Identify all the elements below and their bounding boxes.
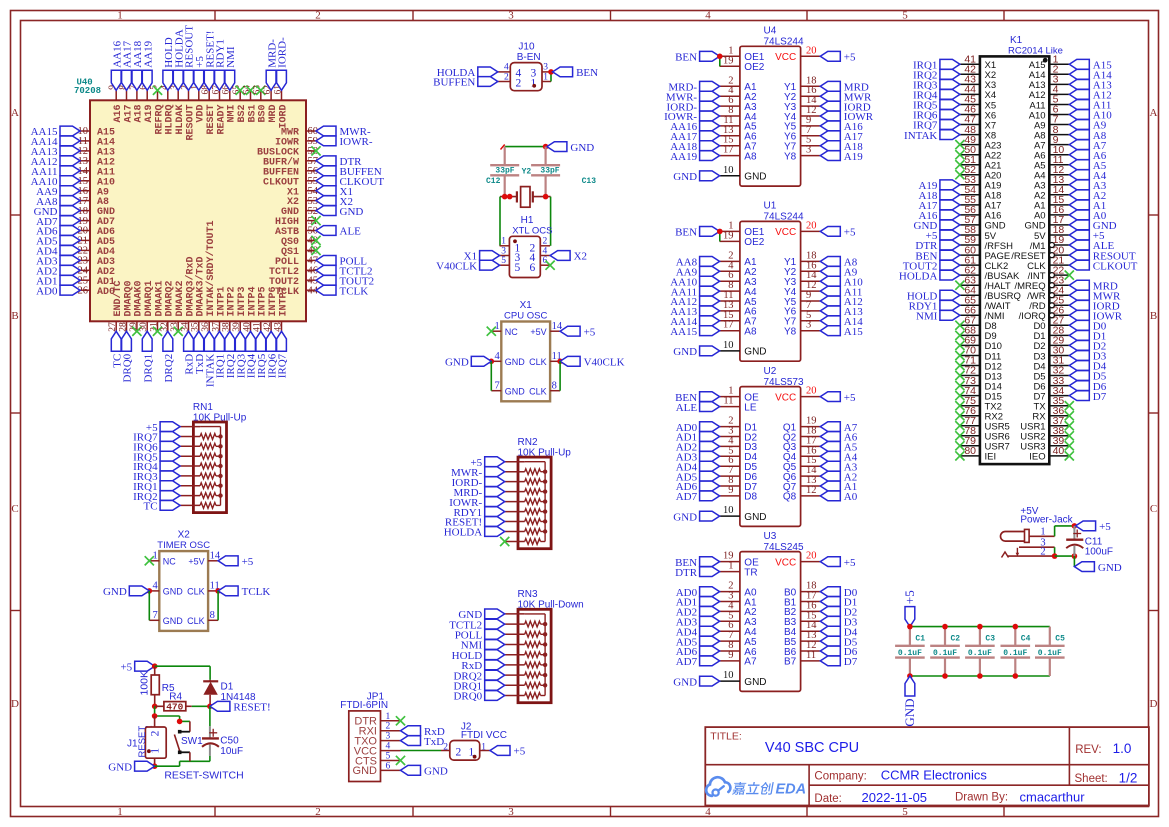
resistor network RN3 10K Pull-Down xyxy=(518,589,584,703)
net flag GND xyxy=(34,206,80,218)
svg-text:GND: GND xyxy=(103,586,127,598)
K1 pin 64 /BUSRQ xyxy=(960,284,1021,302)
U3 pin 8 A6 xyxy=(720,640,757,658)
net flag AA12 xyxy=(670,296,719,308)
K1 pin 69 D10 xyxy=(960,335,1002,353)
U2 pin 18 Q2 xyxy=(783,426,820,444)
svg-text:36: 36 xyxy=(201,322,211,332)
U2 pin 15 Q5 xyxy=(783,455,820,473)
svg-text:+5: +5 xyxy=(514,746,526,758)
svg-text:+5: +5 xyxy=(120,661,132,673)
svg-text:10: 10 xyxy=(723,670,734,681)
U1 pin 3 Y8 xyxy=(784,320,820,338)
wire C50 to ground rail xyxy=(180,756,210,766)
svg-text:9: 9 xyxy=(728,650,733,661)
U40 pin 1 VDD xyxy=(191,85,207,123)
svg-text:4: 4 xyxy=(153,581,159,592)
wire crystal to H1 pin1 xyxy=(499,197,501,246)
no-connect X xyxy=(145,556,154,565)
U40 pin 29 DMAAK0 xyxy=(129,280,145,331)
no-connect X xyxy=(955,150,964,159)
svg-text:10uF: 10uF xyxy=(220,746,243,757)
svg-text:RESET-SWITCH: RESET-SWITCH xyxy=(164,770,243,782)
svg-text:TR: TR xyxy=(744,567,757,578)
U1 pin 19 OE2 xyxy=(720,230,765,248)
U40 pin 34 DMARQ3/RxD xyxy=(180,256,196,331)
svg-text:5: 5 xyxy=(501,256,506,266)
net flag D7 xyxy=(820,656,857,668)
net flag CLKOUT xyxy=(316,176,384,188)
U40 pin 25 AD1 xyxy=(78,275,116,288)
U3 pin 10 GND xyxy=(720,670,767,688)
wire GND pins xyxy=(490,361,492,390)
net flag GND xyxy=(1069,220,1116,232)
svg-text:DRQ0: DRQ0 xyxy=(122,353,134,382)
no-connect X xyxy=(500,537,509,546)
K1 pin 2 A14 xyxy=(1029,64,1070,82)
net flag +5 xyxy=(1069,230,1105,242)
wire crystal top to GND xyxy=(501,145,546,150)
connector J2 FTDI VCC xyxy=(441,721,507,760)
no-connect X xyxy=(955,351,964,360)
net flag DRQ1 xyxy=(453,680,504,692)
capacitor C50 10uF xyxy=(202,726,243,757)
svg-text:GND: GND xyxy=(744,677,766,688)
K1 pin 16 A0 xyxy=(1034,204,1069,222)
J10 pin 3 xyxy=(542,63,551,73)
K1 pin 65 /WAIT xyxy=(960,295,1011,313)
net flag BEN xyxy=(675,227,720,239)
U4 pin 10 GND xyxy=(720,165,767,183)
U4 pin 19 OE2 xyxy=(720,55,765,73)
U40 pin 24 AD2 xyxy=(78,266,116,278)
K1 pin 41 X1 xyxy=(960,54,996,72)
no-connect X xyxy=(174,327,183,336)
K1 pin 46 X6 xyxy=(960,104,996,122)
U40 pin 53 X2 xyxy=(287,196,318,208)
svg-text:2: 2 xyxy=(516,77,522,89)
svg-text:11: 11 xyxy=(723,396,733,407)
net flag IRQ1 xyxy=(215,331,227,378)
svg-text:GND: GND xyxy=(340,206,364,218)
no-connect X xyxy=(955,361,964,370)
net flag A14 xyxy=(820,316,863,328)
K1 pin 35 TX xyxy=(1033,395,1069,413)
net flag IRQ6 xyxy=(913,110,960,122)
U40 pin 56 BUFFEN xyxy=(263,166,318,178)
svg-text:VCC: VCC xyxy=(775,557,796,568)
net flag IOWR xyxy=(1069,310,1122,322)
net flag A10 xyxy=(1069,110,1112,122)
K1 pin 24 /WR xyxy=(1027,284,1069,302)
svg-text:Q8: Q8 xyxy=(783,492,797,503)
RN1 pin 8 xyxy=(180,493,220,499)
net flag GND xyxy=(673,511,719,523)
svg-text:8: 8 xyxy=(210,610,215,621)
U40 pin 63 BS0 xyxy=(253,85,269,123)
svg-text:IRQ7: IRQ7 xyxy=(277,353,289,378)
svg-text:4: 4 xyxy=(705,806,711,818)
svg-text:OE2: OE2 xyxy=(744,237,764,248)
U4 pin 1 OE1 xyxy=(720,45,765,63)
svg-text:TITLE:: TITLE: xyxy=(710,730,742,742)
U3 pin 2 A0 xyxy=(720,581,757,599)
U1 pin 11 A5 xyxy=(720,290,757,308)
svg-text:CLKOUT: CLKOUT xyxy=(1093,260,1138,272)
no-connect X xyxy=(955,331,964,340)
svg-text:EDA: EDA xyxy=(776,782,807,798)
no-connect X xyxy=(396,756,405,765)
wire jack pin1 to +5 xyxy=(1055,526,1075,536)
U40 pin 13 A12 xyxy=(78,156,116,168)
U3 pin 3 A1 xyxy=(720,591,757,609)
svg-text:RN2: RN2 xyxy=(518,437,538,448)
RN2 pin 7 xyxy=(505,519,545,525)
U2 pin 11 LE xyxy=(720,396,757,414)
junction xyxy=(548,69,554,75)
net flag ALE xyxy=(1069,240,1114,252)
no-connect X xyxy=(955,421,964,430)
svg-text:IEI: IEI xyxy=(985,452,997,463)
RN3 pin 9 xyxy=(505,693,545,699)
svg-text:42: 42 xyxy=(263,322,273,332)
wire J1 to switch xyxy=(155,706,190,721)
no-connect X xyxy=(1065,411,1074,420)
capacitor C4 0.1uF xyxy=(1001,627,1031,676)
capacitor C13 33pF xyxy=(531,147,596,197)
U40 pin 26 AD0 xyxy=(78,285,116,297)
svg-text:C12: C12 xyxy=(486,177,501,186)
K1 pin 7 A9 xyxy=(1034,114,1069,132)
U40 pin 44 TCLK xyxy=(275,285,319,297)
U40 pin 8 A17 xyxy=(118,85,134,123)
svg-text:TC: TC xyxy=(144,501,158,513)
no-connect X xyxy=(955,411,964,420)
U4 pin 20 VCC xyxy=(775,45,820,63)
net flag AA17 xyxy=(670,131,719,143)
svg-text:DRQ1: DRQ1 xyxy=(142,354,154,383)
svg-text:Company:: Company: xyxy=(814,771,866,783)
U40 pin 36 INTAK/SRDY/TOUT1 xyxy=(201,220,217,331)
net flag AA17 xyxy=(122,40,134,90)
net flag A10 xyxy=(820,276,863,288)
net flag DRQ2 xyxy=(453,670,504,682)
oscillator socket H1 XTL OCS xyxy=(500,215,553,278)
net flag TOUT2 xyxy=(316,275,374,287)
U4 pin 11 A5 xyxy=(720,115,757,133)
no-connect X xyxy=(955,431,964,440)
net flag A17 xyxy=(918,200,959,212)
net flag AA18 xyxy=(670,141,719,153)
K1 labels xyxy=(1008,35,1063,57)
junction xyxy=(489,359,495,365)
svg-text:C1: C1 xyxy=(915,635,925,644)
svg-text:1: 1 xyxy=(117,806,123,818)
U40 pin 20 AD6 xyxy=(78,226,116,238)
net flag +5 xyxy=(470,457,504,469)
net flag IRQ6 xyxy=(266,331,278,378)
power flag +5 xyxy=(490,746,526,758)
net flag A5 xyxy=(1069,160,1106,172)
IC U4 74LS244 xyxy=(740,26,804,187)
net flag A6 xyxy=(1069,150,1106,162)
K1 pin 22 /INT xyxy=(1028,264,1070,282)
no-connect X xyxy=(955,341,964,350)
net flag CLKOUT xyxy=(1069,260,1137,272)
no-connect X xyxy=(311,236,320,245)
U40 pin 23 AD3 xyxy=(78,256,116,268)
svg-text:NC: NC xyxy=(163,557,176,567)
net flag AA16 xyxy=(670,121,719,133)
net flag A17 xyxy=(820,131,863,143)
svg-text:+5: +5 xyxy=(242,556,254,568)
junction xyxy=(907,673,913,679)
svg-text:2: 2 xyxy=(315,10,321,22)
power flag GND xyxy=(902,676,917,727)
net flag A12 xyxy=(1069,90,1111,102)
net flag D6 xyxy=(1069,381,1106,393)
svg-text:34: 34 xyxy=(180,322,190,332)
K1 pin 1 A15 xyxy=(1029,54,1070,72)
svg-text:DTR: DTR xyxy=(675,567,698,579)
svg-text:NMI: NMI xyxy=(916,311,938,323)
RN3 common rail xyxy=(543,614,547,696)
svg-text:B7: B7 xyxy=(784,657,797,668)
RN1 common rail xyxy=(218,427,222,506)
wire BEN to OE2 xyxy=(719,56,721,66)
net flag A0 xyxy=(820,491,857,503)
no-connect X xyxy=(132,327,141,336)
svg-text:DRQ2: DRQ2 xyxy=(163,354,175,383)
U40 pin 39 INTP3 xyxy=(232,286,248,331)
U1 pin 5 Y7 xyxy=(784,310,820,328)
net flag AD4 xyxy=(36,246,80,258)
net flag ALE xyxy=(316,226,361,238)
K1 pin 12 A4 xyxy=(1034,164,1069,182)
RN3 pin 5 xyxy=(505,652,545,658)
net flag DTR xyxy=(675,567,720,579)
net flag D7 xyxy=(1069,391,1106,403)
svg-text:GND: GND xyxy=(902,699,917,727)
svg-text:8: 8 xyxy=(552,381,557,392)
U40 pin 58 BUSLOCK xyxy=(257,146,318,158)
net flag AD5 xyxy=(36,236,80,248)
U3 pin 9 A7 xyxy=(720,650,757,668)
svg-text:6: 6 xyxy=(530,262,536,274)
net flag A1 xyxy=(1069,200,1106,212)
J10 pin 2 xyxy=(498,72,511,82)
U40 pin 55 CLKOUT xyxy=(263,176,318,188)
junction xyxy=(543,194,549,200)
net flag BEN xyxy=(675,51,720,63)
net flag A3 xyxy=(820,461,857,473)
resistor R5 100K xyxy=(139,666,176,706)
svg-text:AA19: AA19 xyxy=(670,151,697,163)
net flag NMI xyxy=(916,310,960,322)
net flag POLL xyxy=(316,256,367,268)
net flag AD0 xyxy=(676,422,720,434)
svg-text:470: 470 xyxy=(166,701,183,712)
net flag HOLDA xyxy=(444,527,505,539)
svg-text:R4: R4 xyxy=(169,691,182,702)
net flag A1 xyxy=(820,481,857,493)
U2 pin 2 D1 xyxy=(720,416,758,434)
U40 pin 35 DMAAK3/TxD xyxy=(191,256,207,331)
junction xyxy=(215,588,221,594)
IC U2 74LS573 xyxy=(740,366,804,527)
net flag RxD xyxy=(461,660,504,672)
net flag D5 xyxy=(820,636,857,648)
no-connect X xyxy=(1065,451,1074,460)
U40 pin 18 GND xyxy=(78,206,116,218)
no-connect X xyxy=(955,140,964,149)
K1 pin 13 A3 xyxy=(1034,174,1069,192)
svg-text:0.1uF: 0.1uF xyxy=(898,649,922,658)
net flag MRD xyxy=(1069,280,1118,292)
K1 pin 36 RX xyxy=(1032,405,1069,423)
K1 pin 38 USR2 xyxy=(1020,425,1069,443)
net flag RDY1 xyxy=(215,39,227,90)
no-connect X xyxy=(955,441,964,450)
svg-text:+5: +5 xyxy=(1099,521,1111,533)
junction xyxy=(1052,553,1058,559)
svg-text:FTDI VCC: FTDI VCC xyxy=(461,730,507,741)
svg-text:43: 43 xyxy=(273,322,283,332)
net flag IRQ2 xyxy=(133,491,180,503)
K1 pin 45 X5 xyxy=(960,94,996,112)
K1 pin 73 D14 xyxy=(960,375,1002,393)
U4 pin 18 Y1 xyxy=(784,75,820,93)
svg-text:40: 40 xyxy=(1053,445,1065,457)
net flag AA9 xyxy=(36,186,80,198)
K1 pin 61 CLK2 xyxy=(960,254,1008,272)
net flag A13 xyxy=(820,306,863,318)
net flag TCTL2 xyxy=(316,265,373,277)
svg-text:1: 1 xyxy=(728,561,733,572)
junction xyxy=(557,359,563,365)
net flag HOLD xyxy=(163,37,175,90)
K1 pin 29 D2 xyxy=(1033,335,1069,353)
K1 pin 30 D3 xyxy=(1033,345,1069,363)
svg-text:INTAK: INTAK xyxy=(904,130,937,142)
svg-text:BUFFEN: BUFFEN xyxy=(433,77,475,89)
svg-text:20: 20 xyxy=(806,220,817,231)
net flag DRQ0 xyxy=(122,331,134,382)
net flag IRQ1 xyxy=(133,481,180,493)
capacitor C5 0.1uF xyxy=(1035,627,1065,676)
svg-text:3: 3 xyxy=(386,732,391,742)
junction xyxy=(147,588,153,594)
net flag RESOUT xyxy=(1069,250,1136,262)
U40 pin 60 MWR xyxy=(281,126,318,138)
K1 pin 33 D6 xyxy=(1033,375,1069,393)
RN3 pin 8 xyxy=(505,682,545,688)
K1 pin 55 A17 xyxy=(960,194,1002,212)
net flag A3 xyxy=(1069,180,1106,192)
resistor R4 470 xyxy=(155,691,192,712)
svg-text:40: 40 xyxy=(242,322,252,332)
U3 pin 15 B3 xyxy=(784,610,820,628)
K1 pin 23 /MREQ xyxy=(1014,274,1069,292)
connector JP1 FTDI-6PIN xyxy=(340,691,400,781)
U40 pin 7 A18 xyxy=(129,85,145,123)
svg-text:A7: A7 xyxy=(744,657,757,668)
svg-text:IORD-: IORD- xyxy=(277,37,289,68)
net flag IORD- xyxy=(277,37,289,90)
net flag AA10 xyxy=(31,176,80,188)
svg-text:J10: J10 xyxy=(518,42,535,53)
svg-text:+5: +5 xyxy=(844,557,856,569)
svg-text:X2: X2 xyxy=(178,529,191,540)
net flag GND xyxy=(458,609,504,621)
net flag +5 xyxy=(820,392,856,404)
svg-text:C3: C3 xyxy=(985,635,995,644)
U1 pin 7 Y6 xyxy=(784,300,820,318)
no-connect X xyxy=(1065,431,1074,440)
power flag +5 xyxy=(902,590,917,626)
svg-text:33pF: 33pF xyxy=(540,166,559,175)
svg-text:0.1uF: 0.1uF xyxy=(933,649,957,658)
net flag X1 xyxy=(316,186,353,198)
U2 pin 17 Q3 xyxy=(783,435,820,453)
U40 pin 50 ASTB xyxy=(275,226,318,238)
net flag AD0 xyxy=(676,587,720,599)
junction xyxy=(152,704,158,710)
svg-text:20: 20 xyxy=(806,551,817,562)
oscillator X1 CPU OSC xyxy=(491,300,563,402)
svg-text:REV:: REV: xyxy=(1075,744,1101,756)
K1 pin 9 A7 xyxy=(1034,134,1069,152)
net flag A19 xyxy=(918,180,959,192)
svg-text:GND: GND xyxy=(673,676,697,688)
svg-text:C5: C5 xyxy=(1055,635,1065,644)
svg-text:GND: GND xyxy=(505,387,526,397)
junction xyxy=(1072,553,1078,559)
svg-text:1: 1 xyxy=(543,72,548,82)
connector J10 B-EN xyxy=(510,42,542,91)
wire pin2 to C11 xyxy=(1055,555,1075,557)
svg-text:VDD: VDD xyxy=(196,105,207,123)
net flag TxD xyxy=(194,331,206,374)
U40 pin 30 DMARQ1 xyxy=(139,280,155,331)
J10 pin 1 xyxy=(542,72,551,82)
svg-text:80: 80 xyxy=(964,445,976,457)
U2 pin 19 Q1 xyxy=(783,416,820,434)
resistor network RN1 10K Pull-Up xyxy=(193,402,247,513)
RN2 pin 5 xyxy=(505,499,545,505)
U4 pin 2 A1 xyxy=(720,75,757,93)
net flag A16 xyxy=(820,121,863,133)
junction xyxy=(543,144,549,150)
net flag IRQ5 xyxy=(913,100,960,112)
U4 pin 4 A2 xyxy=(720,85,757,103)
net flag RDY1 xyxy=(909,300,960,312)
net flag AA11 xyxy=(671,286,720,298)
U4 pin 5 Y7 xyxy=(784,135,820,153)
junction xyxy=(152,713,158,719)
net flag RESOUT xyxy=(184,25,196,91)
svg-text:INTP6: INTP6 xyxy=(268,286,279,316)
no-connect X xyxy=(311,216,320,225)
net flag AA13 xyxy=(670,306,719,318)
RN2 pin 9 xyxy=(505,539,545,545)
net flag MRD- xyxy=(668,81,719,93)
U2 pin 12 Q8 xyxy=(783,485,820,503)
svg-text:1: 1 xyxy=(501,237,506,247)
net flag DRQ0 xyxy=(453,691,504,703)
net flag X1 xyxy=(464,251,500,263)
U40 pin 68 RESET xyxy=(201,85,217,135)
